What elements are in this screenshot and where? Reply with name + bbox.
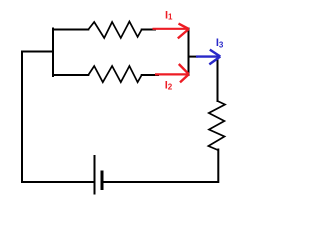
svg-text:2: 2 — [168, 83, 173, 92]
svg-text:1: 1 — [168, 12, 173, 21]
svg-text:3: 3 — [219, 40, 224, 49]
